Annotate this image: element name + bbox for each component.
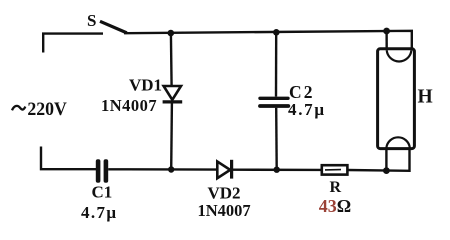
svg-text:1N4007: 1N4007	[198, 201, 251, 220]
svg-text:C2: C2	[289, 82, 313, 102]
svg-text:C1: C1	[92, 183, 113, 202]
node junction top C2	[273, 29, 280, 36]
svg-text:H: H	[418, 87, 433, 108]
svg-text:220V: 220V	[27, 99, 67, 120]
wire bottom bus R to lamp corner	[347, 150, 409, 171]
switch S	[100, 21, 127, 33]
node junction lamp bottom	[383, 167, 390, 174]
wire bottom bus C1 to VD2	[108, 168, 217, 171]
resistor R	[322, 165, 348, 174]
svg-text:S: S	[87, 11, 96, 30]
wire bottom-left stub and bottom bus to C1	[41, 147, 96, 170]
capacitor C2	[260, 32, 288, 169]
wire bottom bus VD2 to R	[233, 168, 322, 171]
svg-text:VD1: VD1	[129, 76, 162, 95]
wire top-left stub and segment to switch	[43, 34, 103, 53]
diode VD1	[163, 33, 183, 169]
wire top bus from switch to lamp corner	[124, 31, 412, 50]
svg-text:43Ω: 43Ω	[319, 196, 351, 216]
node junction top VD1	[168, 30, 175, 37]
diode VD2	[217, 160, 231, 179]
node junction C2/bottom	[274, 167, 280, 173]
node junction VD1/bottom	[168, 166, 174, 172]
svg-text:R: R	[330, 179, 342, 196]
lamp H (fluorescent tube)	[378, 31, 415, 171]
node junction lamp top	[383, 28, 390, 35]
svg-text:4.7μ: 4.7μ	[81, 203, 116, 222]
svg-text:1N4007: 1N4007	[101, 96, 157, 115]
capacitor C1	[96, 159, 108, 182]
svg-text:VD2: VD2	[208, 183, 241, 202]
svg-text:4.7μ: 4.7μ	[288, 100, 324, 119]
label ~220V	[12, 106, 25, 110]
